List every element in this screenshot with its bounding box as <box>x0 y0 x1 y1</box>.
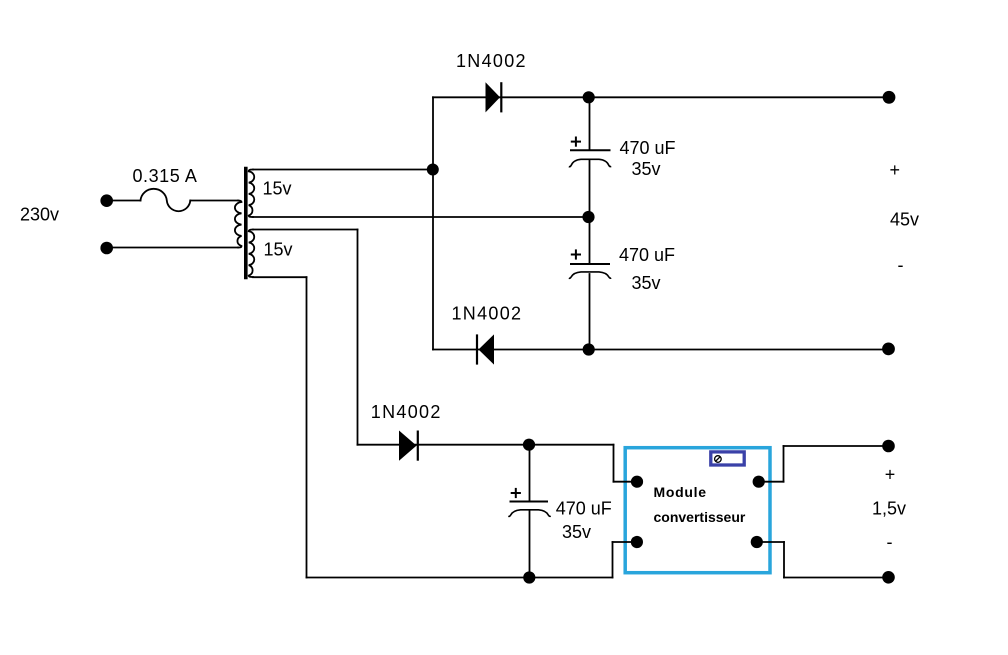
svg-text:+: + <box>890 160 901 180</box>
svg-text:-: - <box>887 532 893 552</box>
svg-text:Module: Module <box>654 484 707 500</box>
svg-text:35v: 35v <box>562 522 591 542</box>
svg-text:45v: 45v <box>890 210 919 230</box>
svg-text:+: + <box>885 465 896 485</box>
svg-text:35v: 35v <box>632 273 661 293</box>
svg-text:470 uF: 470 uF <box>620 138 676 158</box>
svg-text:230v: 230v <box>20 205 59 225</box>
svg-text:470 uF: 470 uF <box>619 245 675 265</box>
svg-text:convertisseur: convertisseur <box>654 509 746 525</box>
svg-text:1,5v: 1,5v <box>872 498 906 518</box>
svg-text:-: - <box>898 255 904 275</box>
svg-text:1N4002: 1N4002 <box>456 51 527 71</box>
svg-text:15v: 15v <box>263 179 292 199</box>
svg-text:15v: 15v <box>264 239 293 259</box>
svg-text:1N4002: 1N4002 <box>371 402 442 422</box>
svg-text:0.315 A: 0.315 A <box>133 166 198 186</box>
svg-text:1N4002: 1N4002 <box>452 303 523 323</box>
svg-text:35v: 35v <box>632 159 661 179</box>
svg-text:470 uF: 470 uF <box>556 498 612 518</box>
